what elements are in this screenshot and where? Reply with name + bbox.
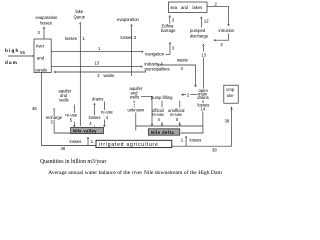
svg-text:discharge: discharge (190, 34, 209, 39)
svg-text:drains: drains (92, 96, 103, 101)
wire evaporation 3 from drains area (121, 24, 137, 76)
wire navigation to Edfina barrage, value 3 (166, 42, 175, 54)
aquifer and wells label (valley) (59, 89, 72, 103)
wire losses 1 from valley (70, 137, 94, 146)
wire pump lifting 2 from drains (181, 93, 197, 98)
pump lifting label (151, 95, 173, 100)
aquifer and wells label (delta) (130, 86, 143, 99)
wire intrusion 2 to drains (214, 34, 229, 47)
drains label (valley) (92, 96, 103, 101)
svg-text:re-use: re-use (101, 109, 114, 114)
wire drains to pumped discharge, value 13 (201, 44, 208, 88)
svg-text:crop: crop (226, 87, 235, 92)
flow 55 from high dam (8, 50, 34, 57)
svg-text:losses: losses (190, 138, 202, 143)
svg-text:use: use (227, 93, 234, 98)
svg-text:Average annual water balance o: Average annual water balance of the rive… (48, 169, 222, 176)
river and canals box (34, 39, 51, 73)
svg-text:intrusion: intrusion (219, 28, 235, 33)
evaporation losses label (middle) (117, 17, 140, 22)
svg-text:Quantities in billion m3/year: Quantities in billion m3/year (40, 159, 106, 165)
svg-text:and: and (37, 56, 45, 61)
svg-text:lake: lake (76, 9, 84, 14)
wire losses 1 from delta (181, 136, 202, 146)
wire navigation 1 (51, 46, 165, 56)
svg-text:13: 13 (201, 53, 206, 58)
wire losses 1 to lake Qarun (65, 22, 86, 126)
svg-text:and: and (181, 5, 189, 10)
wire evaporation from river, value 3 (38, 27, 46, 39)
svg-text:recharge: recharge (46, 115, 63, 120)
svg-text:Nile valley: Nile valley (73, 128, 97, 133)
svg-text:dam: dam (5, 60, 18, 65)
svg-text:wells: wells (130, 95, 139, 100)
wire Nile delta right link (181, 132, 204, 134)
svg-text:waste: waste (104, 73, 116, 78)
svg-text:evaporation: evaporation (117, 17, 140, 22)
svg-text:Qarun: Qarun (74, 15, 86, 20)
wire re-use 4 from drains (101, 102, 114, 127)
caption (48, 169, 222, 176)
wire sea to intrusion, value 2 (207, 2, 230, 26)
Nile valley box (71, 127, 104, 133)
svg-text:canals: canals (35, 67, 47, 72)
sea and lakes box (169, 2, 208, 13)
wire industry 13 (51, 61, 169, 72)
wire unofficial re-use 5 (168, 101, 188, 126)
wire recharge 3 (45, 108, 70, 133)
svg-text:38: 38 (225, 119, 230, 124)
svg-text:river: river (36, 44, 45, 49)
wire 46 from river to irrigated agriculture (32, 73, 96, 152)
svg-text:losses: losses (70, 139, 82, 144)
svg-text:lakes: lakes (193, 5, 203, 10)
svg-text:sea: sea (170, 5, 177, 10)
wire waste 2 return to river (54, 70, 146, 78)
open main drains label (197, 88, 208, 100)
svg-text:55: 55 (20, 50, 26, 55)
evaporation losses label (left) (36, 15, 59, 25)
svg-text:barrage: barrage (161, 28, 176, 33)
intrusion label (219, 28, 235, 33)
wire aquifer to delta line (141, 96, 153, 125)
svg-text:losses: losses (89, 115, 101, 120)
crop use box (224, 85, 238, 103)
pumped discharge label (190, 28, 209, 39)
svg-text:46: 46 (61, 146, 66, 151)
svg-text:12: 12 (204, 18, 209, 23)
svg-text:evaporation: evaporation (36, 15, 59, 20)
svg-text:Nile delta: Nile delta (151, 130, 174, 135)
svg-text:waste: waste (177, 58, 189, 63)
delta collector line (136, 125, 203, 127)
wire pumped discharge to sea, value 12 (200, 17, 209, 28)
svg-text:losses: losses (40, 21, 52, 26)
svg-text:losses: losses (121, 35, 133, 40)
irrigated agriculture box (96, 140, 172, 148)
wire losses 14 from delta to drains (197, 101, 209, 134)
wire official re-use 4 (152, 101, 167, 126)
right rail to crop use (172, 107, 233, 153)
high dam label (5, 48, 20, 65)
svg-text:pump lifting: pump lifting (151, 95, 173, 100)
wire re-use 5 from valley aquifer (65, 105, 78, 127)
wire unknown recharge (128, 101, 145, 131)
svg-text:high: high (5, 48, 20, 53)
note quantities (40, 159, 106, 165)
svg-text:13: 13 (95, 61, 100, 66)
Edfina barrage label (161, 24, 176, 33)
svg-text:navigation: navigation (145, 51, 165, 56)
svg-text:irrigated agriculture: irrigated agriculture (99, 142, 159, 148)
svg-text:14: 14 (201, 107, 206, 112)
Nile delta box (148, 129, 180, 135)
svg-text:unknown: unknown (128, 108, 145, 113)
wire Edfina barrage to sea, value 3 (169, 15, 175, 23)
lake Qarun label (74, 9, 86, 20)
wire losses 4 to drains (88, 103, 100, 126)
svg-text:38: 38 (212, 148, 217, 153)
svg-text:losses: losses (65, 36, 77, 41)
wire waste 3 to open main drains (157, 58, 197, 87)
svg-text:municipalities: municipalities (145, 67, 170, 72)
svg-text:pumped: pumped (190, 28, 206, 33)
svg-text:46: 46 (32, 106, 37, 111)
svg-text:drains: drains (197, 95, 208, 100)
svg-text:wells: wells (59, 97, 68, 102)
